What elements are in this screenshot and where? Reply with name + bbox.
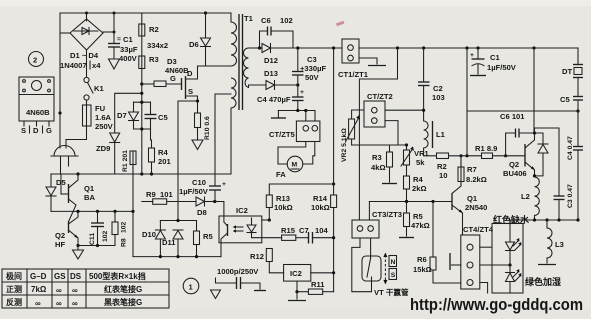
zener ZD9 [96,93,142,174]
svg-text:R3: R3 [372,153,382,162]
svg-text:R15: R15 [281,226,296,235]
node R4 bottom [150,172,153,175]
svg-text:Q1: Q1 [467,194,478,203]
wire R2R3 main chain [141,13,143,174]
wire FU to lamp [66,126,87,148]
oscillator feed row y155.8 [437,153,482,180]
svg-text:4kΩ: 4kΩ [371,163,386,172]
resistor R9 101 [142,190,196,204]
wire row y211 [51,210,133,212]
svg-text:C4 0.47: C4 0.47 [567,136,574,160]
wire bottom rail y256 [133,256,221,258]
svg-text:C3: C3 [307,55,317,64]
svg-text:R4: R4 [413,175,423,184]
magnet N S [383,253,396,285]
svg-text:G: G [46,126,52,135]
capacitor C7 104 [299,226,334,244]
svg-text:L1: L1 [436,130,446,139]
svg-text:N: N [391,259,396,266]
resistor R3 4k [371,145,397,184]
svg-text:C4 470µF: C4 470µF [257,95,291,104]
svg-text:D: D [33,126,39,135]
wire feedback winding tap y94 [215,94,231,186]
svg-text:104: 104 [315,226,328,235]
wire y110 row [278,110,315,112]
svg-text:http://www.go-gddq.com: http://www.go-gddq.com [410,295,583,314]
wire top rail primary [60,13,231,148]
diode D6 [189,11,211,66]
svg-text:R8: R8 [121,238,128,247]
svg-text:D8: D8 [197,208,207,217]
diode D10 [142,221,165,257]
svg-text:C1: C1 [490,53,500,62]
resistor R14 10k [311,194,337,212]
svg-text:103: 103 [432,93,445,102]
svg-text:FA: FA [276,170,286,179]
ground under R10 [192,140,203,150]
transistor Q1 BA [61,174,95,221]
wire bridge top stub [86,13,88,21]
svg-text:10: 10 [439,171,447,180]
resistor R2 334x2 [139,24,168,50]
resistor R7 8.2k [458,154,487,186]
svg-text:R3: R3 [149,55,159,64]
resistor R11 [295,280,333,294]
transistor Q1 2N540 [452,156,487,235]
diode D8 [196,197,215,217]
svg-text:R7: R7 [467,165,477,174]
ground under IC2 [288,292,306,301]
svg-text:x4: x4 [92,61,101,70]
svg-text:500型表R×1k挡: 500型表R×1k挡 [89,271,146,281]
node bridge-C1 [113,31,116,34]
diode D5 [46,174,66,211]
rheostat VR2 5.1k [341,110,364,162]
svg-text:GS: GS [54,272,66,281]
wire IC2 pin4 to R12 node [262,219,270,221]
svg-text:R6: R6 [417,255,427,264]
LED red (lack of water) [506,224,522,267]
svg-text:红色缺水: 红色缺水 [493,214,530,225]
svg-text:C3 0.47: C3 0.47 [567,184,574,208]
capacitor C6 102 (snubber loop) [260,16,294,48]
measurement table [2,269,169,308]
diode D11 [160,219,196,257]
svg-text:HF: HF [55,240,65,249]
svg-text:VR2 5.1kΩ: VR2 5.1kΩ [341,128,348,162]
svg-text:D3: D3 [167,57,177,66]
svg-text:50V: 50V [305,73,319,82]
svg-text:47kΩ: 47kΩ [411,221,430,230]
inductor L3 [538,220,564,265]
bridge rectifier D1-D4 1N4007 x4 [60,19,114,70]
svg-text:ZD9: ZD9 [96,144,110,153]
svg-text:+: + [300,89,304,96]
wire secondary top to D12 [249,47,263,49]
svg-text:C5: C5 [560,95,570,104]
svg-text:2N540: 2N540 [465,203,487,212]
long vertical rail x334 [333,48,335,195]
transistor Q2 HF [55,211,79,249]
svg-text:黑表笔接G: 黑表笔接G [104,297,142,307]
svg-text:S: S [21,126,26,135]
svg-text:7kΩ: 7kΩ [31,285,47,294]
svg-text:S: S [188,87,193,96]
circled 2 [29,52,44,67]
svg-text:C10: C10 [192,178,206,187]
svg-text:R13: R13 [276,194,290,203]
svg-text:D7: D7 [117,111,127,120]
connector CT/ZT5 [269,111,320,142]
node rail-C1 [113,12,116,15]
node rail-bridge [85,12,88,15]
node lamp/D5 [76,172,79,175]
ground bar at CT1/ZT1 [359,58,386,66]
svg-text:VR1: VR1 [414,149,430,158]
svg-text:D12: D12 [264,56,278,65]
connector CT1/ZT1 [338,39,369,79]
svg-text:L3: L3 [555,240,564,249]
svg-text:1µF/50V: 1µF/50V [487,63,517,72]
capacitor C3 330uF 50V [292,48,326,85]
capacitor C10 1uF/50V [179,178,226,202]
svg-text:2kΩ: 2kΩ [412,184,427,193]
resistor R3 [139,55,159,69]
connector CT/ZT2 [364,92,424,145]
svg-text:102: 102 [102,230,109,242]
wire rail drop to CT3 sense line [359,48,397,220]
MOSFET D3 4N60B [165,57,198,103]
svg-text:D10: D10 [142,230,156,239]
wire collector from rail [533,48,535,133]
svg-text:Q2: Q2 [509,160,519,169]
svg-text:D6: D6 [189,40,199,49]
svg-text:1000p/250V: 1000p/250V [217,267,259,276]
svg-text:4N60B: 4N60B [26,108,50,117]
resistor R5 47k [399,200,430,238]
connector CT3/ZT3 [352,202,402,239]
resistor R4 2k [404,175,427,202]
capacitor C1 1uF/50V [470,48,517,76]
thermistor row y145 [352,144,407,146]
svg-text:8.2kΩ: 8.2kΩ [466,175,487,184]
wire winding bottom to y174 [230,108,232,174]
LED green (humidify) [506,265,522,293]
svg-text:R1 201: R1 201 [122,150,129,172]
4N60B package (test illustration) [19,77,54,135]
wire rail to IC2 pin3 [220,243,222,257]
svg-text:S: S [391,272,396,279]
connector CT4/ZT4 [461,225,494,289]
capacitor 1000p/250V [211,267,267,299]
optocoupler IC2 [219,206,262,243]
resistor R1 8.9 [465,144,525,159]
IC2 regulator box [284,265,336,282]
wire drain row y66 [198,65,232,67]
main DC rail y48 [298,47,342,49]
capacitor C5 [145,102,169,129]
snubber C3 0.47 branch [535,128,575,220]
svg-text:10kΩ: 10kΩ [274,203,293,212]
svg-text:1.6A: 1.6A [95,113,112,122]
svg-text:2: 2 [33,56,37,65]
svg-text:C1: C1 [123,35,133,44]
capacitor C1 33uF 400V [108,13,138,63]
svg-text:+: + [470,52,474,59]
svg-text:1N4007: 1N4007 [60,61,87,70]
svg-text:K1: K1 [94,84,104,93]
svg-text:FU: FU [95,104,106,113]
svg-text:R12: R12 [250,252,264,261]
svg-text:33µF: 33µF [120,45,138,54]
svg-text:R10 0.6: R10 0.6 [204,116,211,140]
resistor R13 10k [266,184,333,220]
switch K1 [84,77,105,100]
svg-text:1µF/50V: 1µF/50V [179,187,209,196]
svg-text:∞: ∞ [72,286,78,295]
ground left of CT4 [450,253,461,270]
wire source to left rail down [178,101,198,221]
resistor R6 15k [413,202,461,284]
reed switch VT [352,238,409,297]
svg-text:C2: C2 [433,84,443,93]
node R2R3 chain bottom [140,172,143,175]
lamp (atomizer transducer) [51,146,78,175]
svg-text:D: D [187,69,193,78]
transformer T1 [231,13,254,110]
svg-text:极间: 极间 [6,271,22,281]
svg-text:BA: BA [84,193,95,202]
motor M FA [276,142,315,180]
svg-text:101: 101 [160,190,173,199]
capacitor C4 470uF [257,85,304,111]
ground bar (thick) left of CT/ZT5 [271,111,286,119]
svg-text:CT1/ZT1: CT1/ZT1 [338,70,369,79]
svg-text:5k: 5k [416,158,425,167]
svg-text:=: = [117,36,121,43]
scan artifact [336,21,345,27]
resistor R12 [250,249,284,273]
svg-text:R5: R5 [203,232,213,241]
LED indicator box [480,220,523,293]
wire node-A horizontal y174 [51,173,231,175]
node source [196,99,199,102]
bottom emitter rail y220 [510,219,578,221]
svg-text:+: + [222,181,226,188]
svg-text:334x2: 334x2 [147,41,168,50]
svg-text:R14: R14 [313,194,328,203]
svg-text:DS: DS [70,272,82,281]
resistor R4 201 (right chain) [149,129,172,174]
svg-text:CT/ZT2: CT/ZT2 [367,92,393,101]
svg-text:C7: C7 [299,226,309,235]
svg-text:10kΩ: 10kΩ [311,203,330,212]
svg-text:C5: C5 [158,113,168,122]
base wire row y201 [369,201,452,203]
resistor R15 [262,226,309,240]
svg-text:400V: 400V [119,54,138,63]
gate resistor [142,74,182,87]
node AC line [58,111,61,114]
svg-text:∞: ∞ [72,299,78,308]
svg-text:红表笔接G: 红表笔接G [104,284,142,294]
wire bridge bottom to K1 [86,50,88,77]
wire row y245 [78,245,115,247]
transistor Q2 BU406 [503,133,535,178]
svg-text:DT: DT [562,67,572,76]
svg-text:D11: D11 [162,238,176,247]
svg-text:正测: 正测 [6,284,22,294]
svg-text:R2: R2 [437,162,447,171]
inductor L2 [521,174,539,220]
diode D7 (parallel with C5) [117,102,151,129]
inductor L1 + C2 column [418,48,446,156]
capacitor C6 101 [500,112,535,156]
svg-text:IC2: IC2 [236,206,248,215]
svg-text:C6: C6 [261,16,271,25]
svg-text:R11: R11 [311,280,325,289]
svg-text:∞: ∞ [35,299,41,308]
svg-text:G–D: G–D [30,272,47,281]
wire to IC2 pin1 [215,202,224,217]
rheostat VR1 5k [401,145,430,176]
svg-text:D13: D13 [264,69,278,78]
svg-text:+330µF: +330µF [300,64,326,73]
resistor R10 0.6 [195,103,212,140]
svg-text:G: G [170,74,176,83]
svg-text:R9: R9 [146,190,156,199]
svg-text:R2: R2 [149,25,159,34]
svg-text:102: 102 [280,16,293,25]
svg-text:Q1: Q1 [84,184,95,193]
svg-text:L2: L2 [521,192,530,201]
svg-text:M: M [292,162,298,169]
svg-text:102: 102 [121,221,128,233]
svg-text:CT3/ZT3: CT3/ZT3 [372,210,402,219]
resistor R5 [194,221,214,257]
svg-text:CT/ZT5: CT/ZT5 [269,130,296,139]
fuse FU 1.6A 250V [83,100,114,131]
svg-text:15kΩ: 15kΩ [413,265,432,274]
svg-text:T1: T1 [244,14,254,23]
svg-text:C11: C11 [89,233,96,245]
svg-text:4N60B: 4N60B [165,66,189,75]
svg-text:∞: ∞ [56,286,62,295]
svg-text:IC2: IC2 [290,269,302,278]
svg-text:∞: ∞ [56,299,62,308]
diode D12 (in rail) [262,44,298,66]
svg-text:250V: 250V [95,122,114,131]
right column: DT C5 C4 [560,48,583,220]
svg-text:R1 8.9: R1 8.9 [475,144,497,153]
svg-text:BU406: BU406 [503,169,527,178]
svg-text:R4: R4 [158,148,168,157]
svg-text:VT 干籝管: VT 干籝管 [374,287,409,297]
resistor R1 201 (vertical, left) [122,150,136,212]
svg-text:D1 ~ D4: D1 ~ D4 [70,51,99,60]
ground under Q2 emitter [73,246,84,260]
capacitor C11 102 [89,211,109,245]
wire rail drop x467 and y111 feed [466,48,468,156]
circled 1 [183,278,199,294]
svg-text:Q2: Q2 [55,231,65,240]
svg-text:CT4/ZT4: CT4/ZT4 [463,225,494,234]
svg-text:R5: R5 [413,212,423,221]
svg-text:绿色加湿: 绿色加湿 [525,276,561,287]
svg-text:反测: 反测 [6,297,22,307]
resistor R8 102 [112,211,128,247]
ground (open triangle) under C1 [109,59,120,69]
svg-text:C6 101: C6 101 [500,112,525,121]
svg-text:201: 201 [158,157,171,166]
diode D13 [249,69,298,90]
flyback diode at Q2 [535,133,549,176]
